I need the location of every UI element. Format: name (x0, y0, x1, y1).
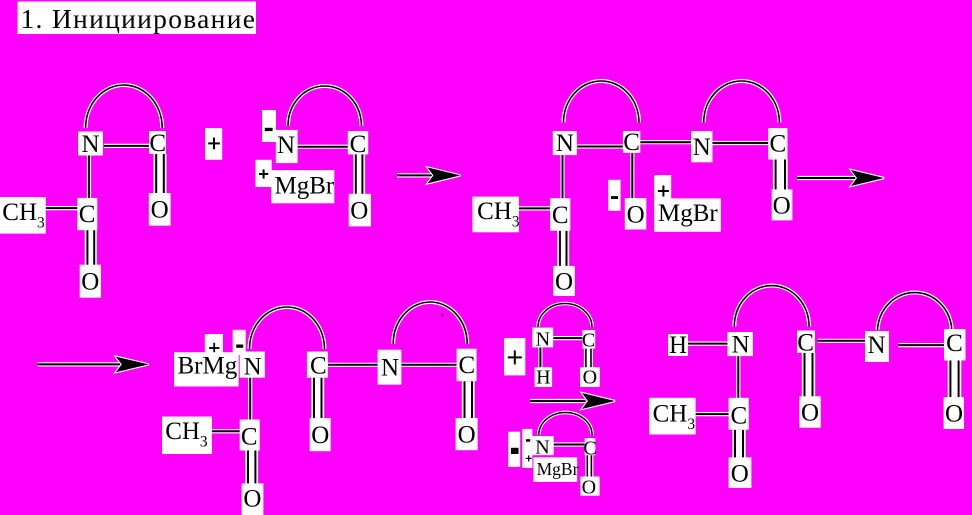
svg-text:N: N (556, 130, 574, 157)
bond N2-C3 M3 (713, 141, 769, 145)
bond C1-N2 M5 (818, 339, 866, 343)
title box (18, 2, 257, 35)
svg-text:C: C (623, 129, 640, 156)
atom O of C2 M5 (944, 397, 964, 429)
svg-text:C: C (552, 202, 569, 229)
svg-text:O: O (81, 269, 99, 296)
svg-text:C: C (241, 424, 258, 451)
svg-text:O: O (311, 422, 329, 449)
bond N-C M2 (298, 145, 348, 149)
svg-text:O: O (582, 476, 596, 498)
atom C B (583, 437, 596, 459)
svg-text:O: O (555, 268, 573, 295)
bond C1-O single M3 (630, 153, 634, 199)
atom C2 M5 (944, 329, 966, 361)
svg-text:N: N (381, 354, 399, 381)
atom O A (580, 367, 600, 389)
atom O of C1 M5 (799, 396, 821, 427)
arc ring 1 M4 (250, 307, 325, 349)
atom N1 M5 (727, 332, 753, 359)
arc ring B (539, 412, 592, 435)
bond C1-N2 M3 (640, 140, 691, 144)
double bond C3=O M5 (732, 430, 745, 458)
plus sign before small structures (504, 338, 525, 375)
bond C1-N2 M4 (328, 363, 378, 367)
double bond C1=O M4 (311, 378, 324, 419)
double bond C1=O1 M1 (154, 154, 167, 194)
atom C2 M4 (457, 349, 477, 382)
bond CH3-C3 M4 (212, 429, 240, 433)
atom O alkoxide M3 (625, 198, 647, 230)
atom C3 M5 (729, 398, 749, 430)
atom H M5 (668, 332, 688, 359)
atom O of C3 M3 (772, 189, 793, 220)
svg-text:BrMg: BrMg (178, 352, 238, 379)
plus charge M2 (255, 160, 271, 187)
svg-text:1. Инициирование: 1. Инициирование (21, 3, 257, 34)
double bond C3=O M4 (245, 451, 258, 484)
double bond C=O M2 (353, 154, 365, 194)
atom N A (532, 328, 553, 351)
double bond C1=O M5 (802, 353, 815, 397)
arc ring M1 (86, 85, 163, 128)
svg-text:C: C (946, 330, 963, 357)
svg-text:O: O (151, 197, 169, 224)
bond N2-C2 M4 (401, 363, 456, 367)
atom O of C2 M3 (553, 266, 575, 296)
atom C1 M3 (623, 129, 640, 156)
double bond C2=O M4 (462, 381, 475, 418)
label CH3 M3 (472, 197, 519, 233)
label MgBr M3 (654, 198, 721, 231)
bond N1-C1 M3 (577, 144, 623, 148)
minus charge M2 (262, 110, 276, 142)
small charges box B (522, 429, 532, 468)
svg-text:H: H (536, 367, 550, 389)
double bond C=O A (584, 349, 593, 368)
bond N-C B (554, 442, 585, 446)
bond N2-C2 M5 (898, 343, 944, 347)
plus charge M4 (205, 334, 223, 357)
bond H-N1 M5 (688, 342, 728, 346)
svg-text:N: N (535, 437, 549, 459)
svg-text:O: O (731, 460, 749, 487)
double bond C2=O M3 (557, 231, 569, 266)
atom N1 M3 (553, 130, 577, 157)
bond N1-C3 M4 (248, 378, 252, 420)
plus sign between M1 and M2 (205, 128, 222, 160)
atom C1 M1 (149, 130, 166, 157)
svg-text:N: N (81, 131, 99, 158)
svg-text:N: N (867, 332, 885, 359)
atom O2 M1 (80, 265, 101, 298)
atom C2 M3 (550, 198, 570, 231)
atom N1 M1 (78, 131, 103, 158)
svg-text:O: O (243, 486, 261, 513)
atom O of C2 M4 (456, 418, 478, 450)
atom C3 M3 (768, 128, 787, 159)
atom N B (532, 436, 553, 459)
atom N M2 (276, 130, 298, 163)
atom N2 M5 (865, 331, 889, 362)
bond N-H A (538, 347, 542, 367)
atom O1 M1 (149, 193, 171, 226)
atom C3 M4 (240, 420, 260, 451)
label MgBr M2 (271, 170, 335, 203)
double bond C=O B (585, 455, 593, 477)
atom O B (580, 476, 599, 498)
atom O M2 (349, 194, 371, 227)
svg-text:O: O (801, 399, 819, 426)
bond N1-C1 M1 (104, 144, 150, 148)
bond CH3-C3 M5 (696, 412, 729, 416)
arrow 4 (530, 393, 615, 409)
atom N1 M4 (240, 352, 265, 381)
svg-text:H: H (669, 332, 687, 359)
svg-text:O: O (458, 421, 476, 448)
svg-text:O: O (773, 193, 791, 220)
svg-text:C: C (350, 131, 367, 158)
svg-text:O: O (350, 198, 368, 225)
arc ring 2 M3 (704, 81, 780, 123)
svg-text:C: C (797, 329, 814, 356)
arc ring 1 M5 (734, 286, 809, 327)
bond N-C A (553, 336, 582, 340)
svg-text:MgBr: MgBr (275, 173, 335, 200)
svg-text:N: N (693, 134, 711, 161)
svg-text:C: C (583, 437, 596, 459)
svg-text:O: O (945, 400, 963, 427)
label MgBr B (533, 457, 578, 482)
atom O of C3 M5 (729, 457, 752, 488)
bond CH3-C2 M1 (46, 206, 78, 210)
svg-text:C: C (582, 330, 595, 352)
svg-text:N: N (732, 332, 750, 359)
atom C2 M1 (77, 198, 97, 230)
svg-text:C: C (79, 201, 96, 228)
big minus box B (508, 432, 520, 467)
svg-text:C: C (459, 352, 476, 379)
atom O of C1 M4 (310, 418, 331, 451)
label CH3 M4 (162, 417, 212, 455)
svg-text:MgBr: MgBr (658, 200, 718, 227)
arc ring 1 M3 (564, 81, 640, 123)
svg-text:C: C (149, 130, 166, 157)
label CH3 M1 (0, 197, 46, 234)
arc ring 2 M4 (393, 302, 467, 344)
svg-text:C: C (769, 131, 786, 158)
atom C1 M5 (797, 329, 815, 356)
arc ring A (538, 304, 592, 328)
arrow 2 (797, 170, 884, 186)
svg-text:MgBr: MgBr (537, 459, 579, 479)
svg-text:O: O (583, 367, 597, 389)
label BrMg M4 (174, 352, 239, 386)
bond N1-C2 M3 (560, 155, 564, 198)
atom C1 M4 (307, 352, 328, 380)
atom N2 M3 (691, 131, 712, 162)
svg-text:C: C (731, 403, 748, 430)
svg-text:N: N (244, 354, 262, 381)
arrow 1 (397, 167, 460, 183)
plus charge M3 (654, 175, 671, 207)
atom C A (582, 330, 595, 352)
double bond C2=O2 M1 (85, 230, 97, 266)
double bond C3=O M3 (773, 160, 788, 190)
svg-text:C: C (310, 353, 327, 380)
label CH3 M5 (649, 398, 695, 435)
atom N2 M4 (378, 350, 402, 385)
stray dot M4 (441, 314, 443, 316)
bond CH3-C2 M3 (519, 206, 550, 210)
arc ring 2 M5 (878, 293, 952, 330)
minus charge M4 (233, 330, 246, 355)
bond N1-C3 M5 (736, 356, 740, 398)
arrow 3 (38, 357, 149, 373)
bond N1-C2 M1 (87, 156, 91, 199)
arc ring M2 (288, 86, 361, 126)
minus charge M3 (608, 180, 620, 211)
svg-text:N: N (536, 328, 550, 350)
atom H A (535, 367, 553, 389)
svg-text:O: O (627, 202, 645, 229)
atom C M2 (348, 131, 368, 158)
atom O of C3 M4 (242, 483, 264, 515)
double bond C2=O M5 (948, 361, 962, 398)
svg-text:N: N (277, 132, 295, 159)
